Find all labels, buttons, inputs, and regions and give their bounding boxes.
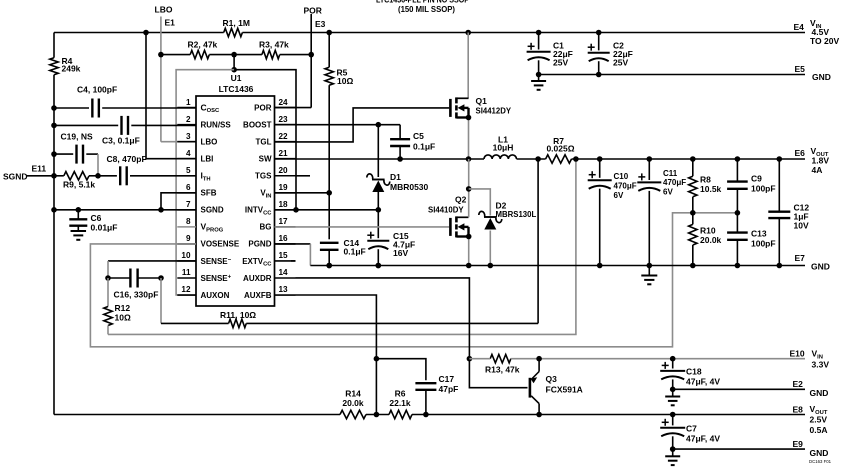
node E7 GND [795, 253, 830, 272]
svg-text:0.5A: 0.5A [810, 425, 828, 435]
svg-text:12: 12 [181, 285, 191, 294]
svg-text:16: 16 [279, 234, 289, 243]
svg-text:20.0k: 20.0k [342, 398, 364, 408]
wire E3 POR vertical [275, 14, 315, 108]
label LBO [155, 5, 173, 15]
svg-text:C11: C11 [663, 169, 678, 178]
resistor R1 [224, 28, 243, 36]
resistor R14 [340, 410, 366, 418]
svg-text:E1: E1 [165, 18, 176, 28]
svg-text:6V: 6V [663, 188, 673, 197]
svg-text:18: 18 [279, 200, 289, 209]
label R14 [342, 389, 364, 409]
transistor Q2 [450, 216, 468, 237]
svg-text:22: 22 [279, 132, 289, 141]
svg-text:C17: C17 [439, 374, 455, 384]
label C14 [344, 238, 366, 257]
wire Q2 source to PGND [466, 234, 472, 269]
svg-text:0.1μF: 0.1μF [413, 142, 435, 152]
label C6 [91, 213, 118, 233]
svg-text:C16, 330pF: C16, 330pF [114, 290, 159, 300]
label R13 [485, 365, 520, 375]
wire R12 to R7 right (SENSE-) [108, 156, 579, 334]
capacitor C18 [660, 359, 685, 392]
svg-text:E2: E2 [793, 379, 804, 389]
svg-text:0.1μF: 0.1μF [344, 247, 366, 257]
svg-text:6: 6 [186, 183, 191, 192]
label D2 [496, 201, 537, 220]
label SGND [3, 172, 28, 182]
wire R2 R3 row [161, 52, 311, 58]
svg-text:21: 21 [279, 149, 289, 158]
capacitor C9 [727, 159, 748, 213]
capacitor C13 [727, 213, 748, 266]
svg-text:(150 MIL SSOP): (150 MIL SSOP) [398, 5, 455, 14]
svg-text:SI4410DY: SI4410DY [428, 206, 464, 215]
wire Q2 drain [466, 159, 472, 217]
capacitor C19 [77, 145, 84, 164]
resistor R6 [389, 410, 412, 418]
ground at C1 [531, 75, 546, 90]
wire LBI from divider [146, 33, 196, 159]
svg-text:25V: 25V [553, 58, 568, 68]
wire E10 3.3V row [469, 356, 805, 362]
label R3 [259, 40, 289, 50]
svg-text:4: 4 [186, 149, 191, 158]
svg-text:MBRS130L: MBRS130L [496, 210, 537, 219]
svg-text:10: 10 [181, 251, 191, 260]
svg-text:FCX591A: FCX591A [546, 385, 583, 395]
svg-text:100pF: 100pF [751, 239, 776, 249]
wire BG row [275, 226, 450, 228]
svg-text:R13, 47k: R13, 47k [485, 365, 520, 375]
svg-text:DC163 F01: DC163 F01 [809, 459, 832, 464]
wire Q1 drain from VIN rail [467, 33, 469, 99]
svg-text:C19, NS: C19, NS [61, 132, 93, 142]
svg-text:LBO: LBO [155, 5, 173, 15]
wire E5 GND row [539, 74, 805, 76]
svg-text:R11, 10Ω: R11, 10Ω [220, 310, 256, 320]
resistor R3 [262, 50, 280, 58]
label R1 [223, 18, 250, 28]
svg-text:Q3: Q3 [546, 374, 558, 384]
svg-text:25V: 25V [613, 58, 628, 68]
svg-text:2: 2 [186, 115, 191, 124]
wire SW VOUT row [275, 156, 806, 162]
svg-text:C9: C9 [751, 174, 762, 184]
svg-text:AUXFB: AUXFB [244, 291, 272, 300]
svg-text:E9: E9 [793, 439, 804, 449]
label C5 [413, 131, 435, 152]
svg-text:R12: R12 [115, 303, 131, 313]
svg-text:SGND: SGND [201, 206, 224, 215]
svg-text:R8: R8 [700, 175, 711, 185]
svg-text:13: 13 [279, 285, 289, 294]
svg-text:R14: R14 [345, 389, 361, 399]
resistor R9 [64, 172, 89, 180]
svg-text:47pF: 47pF [439, 384, 459, 394]
label C15 [393, 231, 415, 258]
svg-text:19: 19 [279, 183, 289, 192]
capacitor C17 [415, 383, 436, 417]
capacitor C6 [69, 210, 87, 231]
svg-text:D1: D1 [390, 172, 401, 182]
svg-text:E6: E6 [795, 148, 806, 158]
wire PGND bus [275, 244, 806, 268]
svg-text:D2: D2 [496, 201, 507, 211]
svg-text:VOSENSE: VOSENSE [201, 240, 240, 249]
label R4 [62, 56, 81, 74]
svg-text:LBO: LBO [201, 137, 218, 146]
svg-text:20.0k: 20.0k [700, 235, 722, 245]
U1 left pin names [201, 102, 240, 299]
wire VIN top rail [54, 30, 805, 36]
svg-text:2.5V: 2.5V [810, 415, 828, 425]
label R11 [220, 310, 256, 320]
label C13 [751, 229, 776, 249]
svg-text:14: 14 [279, 268, 289, 277]
diode D2 [469, 189, 502, 268]
wire COSC row [54, 107, 196, 109]
resistor R12 [104, 278, 112, 334]
label C16 [114, 290, 159, 300]
label R5 [337, 68, 354, 87]
capacitor C14 [320, 193, 339, 269]
node E5 GND [795, 64, 831, 82]
svg-text:10.5k: 10.5k [700, 184, 722, 194]
resistor R13 [490, 355, 511, 363]
resistor R7 [546, 155, 572, 163]
U1 right pin names [242, 103, 272, 299]
svg-text:U1: U1 [231, 73, 242, 83]
label C1 [553, 41, 573, 68]
wire RUN/SS row [54, 124, 196, 126]
wire AUXFB to C17 [376, 359, 426, 381]
svg-text:E8: E8 [793, 405, 804, 415]
svg-text:SW: SW [259, 155, 272, 164]
svg-text:SFB: SFB [201, 189, 217, 198]
label POR [304, 6, 322, 16]
wire INTVCC to AUXON [176, 70, 234, 295]
U1 left pin stubs and pin numbers 1-12 [177, 98, 196, 295]
svg-text:COSC: COSC [201, 102, 221, 114]
wire R5 column upper [328, 33, 330, 68]
svg-text:LBI: LBI [201, 155, 214, 164]
wire E1 LBO vertical [158, 17, 196, 142]
label C7 [686, 424, 720, 444]
capacitor C7 [660, 415, 685, 452]
capacitor C10 [588, 159, 612, 266]
wire R11 row to R7 left (SENSE+) [161, 156, 541, 323]
resistor R5 [325, 67, 333, 85]
svg-text:E4: E4 [794, 22, 805, 32]
label C9 [751, 174, 776, 194]
wire TGS stub [296, 175, 311, 177]
svg-text:BOOST: BOOST [243, 120, 272, 129]
svg-text:E11: E11 [32, 164, 47, 174]
op-amp U1 LTC1436 body [196, 96, 275, 306]
svg-text:C18: C18 [686, 367, 702, 377]
label C17 [439, 374, 459, 394]
svg-text:R6: R6 [395, 389, 406, 399]
label Q3 [546, 374, 583, 395]
label C18 [686, 367, 720, 387]
label E11 [32, 164, 47, 174]
svg-text:3.3V: 3.3V [812, 360, 830, 370]
wire TGL to Q1 gate [275, 108, 450, 142]
svg-text:SENSE−: SENSE− [201, 257, 232, 266]
svg-text:47μF, 4V: 47μF, 4V [686, 377, 720, 387]
label C4 [77, 85, 117, 95]
label Q2 [428, 195, 467, 215]
label R9 [63, 180, 95, 190]
node E2 GND [793, 379, 829, 398]
wire R5 to VIN pin [326, 85, 332, 195]
resistor R10 [689, 213, 697, 266]
capacitor C1 [527, 33, 551, 78]
svg-text:10V: 10V [794, 221, 809, 231]
inductor L1 [484, 155, 516, 159]
svg-text:E10: E10 [790, 349, 805, 359]
wire E2 GND row [673, 388, 805, 390]
label R2 [188, 40, 218, 50]
wire SENSE- route [105, 261, 196, 281]
node E9 GND [793, 439, 829, 458]
svg-text:E5: E5 [795, 64, 806, 74]
capacitor C16 [108, 269, 164, 288]
svg-text:470μF: 470μF [614, 182, 637, 191]
svg-text:10Ω: 10Ω [337, 76, 353, 86]
svg-text:MBR0530: MBR0530 [390, 182, 429, 192]
label D1 [390, 172, 429, 192]
svg-text:15: 15 [279, 251, 289, 260]
svg-text:C3, 0.1μF: C3, 0.1μF [102, 136, 140, 146]
resistor R4 [50, 58, 58, 75]
ground at C6 [71, 231, 87, 240]
capacitor C5 [390, 139, 410, 162]
node E6 VOUT [795, 146, 830, 175]
label figure number [809, 459, 832, 464]
capacitor C15 [367, 210, 389, 269]
svg-text:C4, 100pF: C4, 100pF [77, 85, 117, 95]
svg-text:16V: 16V [393, 248, 408, 258]
wire VOSENSE route [90, 210, 740, 347]
svg-text:POR: POR [254, 103, 272, 112]
svg-text:8: 8 [186, 217, 191, 226]
label C2 [613, 41, 633, 68]
svg-text:SGND: SGND [3, 172, 28, 182]
resistor R8 [689, 159, 697, 213]
svg-text:C5: C5 [413, 131, 424, 141]
wire R2R3 junction to INTVCC [231, 55, 299, 213]
ground at C18 [665, 389, 680, 405]
svg-text:249k: 249k [62, 64, 81, 74]
capacitor C3 [122, 116, 129, 135]
svg-text:5: 5 [186, 166, 191, 175]
wire VIN pin row [275, 192, 330, 194]
svg-text:VIN: VIN [260, 189, 271, 200]
label C10 [614, 172, 637, 200]
svg-text:VPROG: VPROG [201, 222, 224, 234]
svg-text:C8, 470pF: C8, 470pF [107, 154, 147, 164]
wire AUXFB route [296, 295, 380, 417]
wire ITH row [54, 175, 196, 177]
svg-text:0.025Ω: 0.025Ω [546, 144, 574, 154]
title line 1 (clipped at top) [376, 0, 469, 4]
svg-text:Q2: Q2 [455, 195, 467, 205]
svg-text:100pF: 100pF [751, 184, 776, 194]
label E3 [315, 19, 326, 29]
svg-text:E3: E3 [315, 19, 326, 29]
transistor Q1 [450, 97, 468, 118]
svg-text:1: 1 [186, 98, 191, 107]
svg-text:TGS: TGS [255, 172, 272, 181]
svg-text:7: 7 [186, 200, 191, 209]
svg-text:SI4412DY: SI4412DY [476, 107, 512, 116]
svg-text:AUXDR: AUXDR [243, 274, 272, 283]
svg-text:3: 3 [186, 132, 191, 141]
wire left rail upper [53, 33, 55, 58]
wire E11 stub [27, 175, 54, 177]
ground at PGND bus [641, 266, 657, 285]
svg-text:17: 17 [279, 217, 289, 226]
wire Q1 source to SW [466, 115, 472, 162]
svg-text:C10: C10 [614, 172, 629, 181]
svg-text:22.1k: 22.1k [389, 398, 411, 408]
svg-text:R3, 47k: R3, 47k [259, 40, 289, 50]
wire SGND row [54, 207, 196, 213]
wire INTVCC row [275, 209, 379, 211]
ground at C7 [665, 449, 680, 465]
svg-text:LTC1436: LTC1436 [219, 84, 254, 94]
svg-text:R1, 1M: R1, 1M [223, 18, 250, 28]
svg-text:POR: POR [304, 6, 322, 16]
label R8 [700, 175, 722, 195]
svg-text:24: 24 [279, 98, 289, 107]
svg-text:10Ω: 10Ω [115, 313, 131, 323]
svg-text:23: 23 [279, 115, 289, 124]
node E10 VIN 3.3V [790, 349, 830, 370]
wire SENSE+ down [160, 278, 162, 323]
svg-text:GND: GND [811, 262, 830, 272]
svg-text:1.8V: 1.8V [812, 156, 830, 166]
wire BOOST row [275, 122, 401, 138]
svg-text:LTC1436-PLL PIN NO SSOP: LTC1436-PLL PIN NO SSOP [376, 0, 469, 4]
transistor Q3 [530, 359, 542, 418]
diode D1 [367, 125, 390, 213]
label C11 [663, 169, 686, 197]
node E8 VOUT 2.5V [793, 404, 828, 435]
svg-text:R2, 47k: R2, 47k [188, 40, 218, 50]
svg-text:EXTVCC: EXTVCC [242, 257, 272, 268]
wire left rail lower [51, 75, 57, 415]
label C12 [794, 203, 810, 231]
capacitor C2 [588, 33, 610, 78]
svg-text:BG: BG [260, 223, 272, 232]
svg-text:11: 11 [182, 268, 191, 277]
svg-text:R10: R10 [700, 226, 716, 236]
capacitor C11 [637, 159, 661, 266]
wire bottom rail [54, 412, 805, 418]
svg-text:0.01μF: 0.01μF [91, 223, 118, 233]
svg-text:6V: 6V [614, 191, 624, 200]
label C19 [61, 132, 93, 142]
svg-text:20: 20 [279, 166, 289, 175]
node E4 VIN [794, 18, 840, 46]
wire AUXDR route [296, 278, 528, 388]
label R12 [115, 303, 131, 323]
svg-text:PGND: PGND [248, 240, 271, 249]
svg-text:470μF: 470μF [663, 178, 686, 187]
svg-text:Q1: Q1 [476, 96, 488, 106]
wire SFB to SGND [161, 193, 196, 210]
svg-text:R9, 5.1k: R9, 5.1k [63, 180, 95, 190]
label R7 [546, 136, 574, 154]
wire EXTVCC stub [291, 260, 296, 262]
capacitor C4 [92, 99, 99, 118]
svg-text:TGL: TGL [256, 137, 272, 146]
label R6 [389, 389, 411, 409]
svg-text:AUXON: AUXON [201, 291, 230, 300]
svg-text:9: 9 [186, 234, 191, 243]
label U1 [219, 73, 254, 94]
capacitor C8 [120, 166, 127, 185]
label L1 [493, 135, 514, 153]
svg-text:RUN/SS: RUN/SS [201, 120, 232, 129]
label Q1 [476, 96, 512, 116]
wire C19 row [54, 154, 101, 179]
resistor R11 [229, 319, 247, 327]
resistor R2 [190, 50, 209, 58]
U1 right pin stubs and pin numbers 24-13 [275, 98, 296, 295]
svg-text:C13: C13 [751, 229, 767, 239]
svg-text:INTVCC: INTVCC [245, 206, 272, 217]
label R10 [700, 226, 722, 246]
capacitor C12 [768, 159, 790, 266]
svg-text:C7: C7 [686, 424, 697, 434]
svg-text:C6: C6 [91, 213, 102, 223]
svg-text:GND: GND [810, 388, 829, 398]
label C3 [102, 136, 140, 146]
svg-text:10μH: 10μH [493, 143, 514, 153]
wire E9 GND row [673, 448, 805, 450]
label C8 [107, 154, 147, 164]
svg-text:4A: 4A [812, 165, 823, 175]
svg-text:ITH: ITH [201, 171, 211, 183]
svg-text:E7: E7 [795, 253, 806, 263]
svg-text:SENSE+: SENSE+ [201, 274, 232, 283]
svg-text:47μF, 4V: 47μF, 4V [686, 434, 720, 444]
title line 2 [398, 5, 455, 14]
svg-text:GND: GND [810, 448, 829, 458]
svg-text:GND: GND [812, 72, 831, 82]
svg-text:TO 20V: TO 20V [810, 36, 839, 46]
label E1 [165, 18, 176, 28]
